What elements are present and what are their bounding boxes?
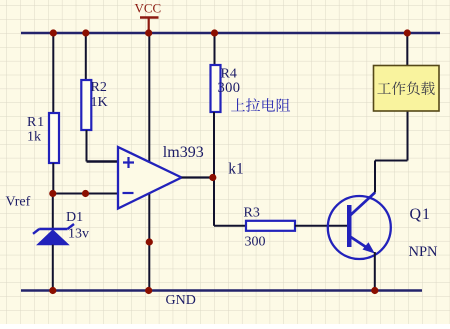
label 工作负载 (working load): [377, 81, 434, 95]
junction ground rail / supply: [145, 287, 152, 294]
junction VCC rail / R4: [211, 29, 218, 36]
wire ground bottom rail: [21, 289, 422, 292]
svg-text:NPN: NPN: [409, 244, 439, 260]
junction VCC rail / supply: [145, 29, 152, 36]
svg-text:1k: 1k: [27, 130, 41, 145]
svg-text:13v: 13v: [68, 227, 89, 242]
wire VCC rail to R4 top: [214, 33, 216, 65]
junction VCC rail / R1: [50, 29, 57, 36]
op-amp U1 lm393: [118, 147, 182, 209]
transistor Q1: [328, 193, 391, 260]
svg-text:Vref: Vref: [6, 195, 31, 210]
wire op-amp output to node k1: [182, 176, 214, 178]
wire VCC rail to load box top: [406, 33, 408, 66]
svg-text:1K: 1K: [91, 95, 108, 110]
wire collector jog right: [375, 160, 408, 162]
wire op-amp supply VCC to GND vertical: [148, 33, 150, 291]
svg-text:R1: R1: [27, 115, 45, 130]
svg-text:VCC: VCC: [135, 1, 162, 16]
junction minus wire node: [82, 190, 89, 197]
junction VCC rail / R2: [82, 29, 89, 36]
svg-text:D1: D1: [66, 210, 83, 225]
wire k1 branch to R3 left: [214, 225, 246, 227]
svg-text:300: 300: [218, 80, 241, 96]
junction VCC rail / load: [404, 29, 411, 36]
wire R4 bottom through k1 down: [213, 112, 215, 226]
wire Q1 collector up: [374, 161, 376, 193]
wire R1 bottom to Vref node: [52, 163, 54, 194]
junction supply wire node: [146, 238, 153, 245]
resistor R2: [81, 80, 91, 130]
wire Vref node to D1 cathode: [52, 194, 54, 230]
wire VCC rail to R2 top: [85, 33, 87, 80]
svg-text:Q1: Q1: [410, 206, 432, 223]
svg-text:k1: k1: [228, 161, 244, 178]
wire up to load box bottom: [407, 111, 409, 161]
svg-text:300: 300: [245, 235, 266, 250]
junction node k1: [209, 174, 216, 181]
wire D1 anode to ground rail: [52, 245, 54, 291]
wire Q1 emitter to ground rail: [374, 252, 376, 291]
resistor R3: [246, 221, 295, 231]
junction Vref node: [49, 190, 56, 197]
resistor R4: [211, 65, 221, 112]
wire VCC top rail: [21, 32, 440, 35]
wire R2 bottom down: [86, 130, 88, 162]
svg-text:GND: GND: [166, 293, 196, 308]
svg-text:R3: R3: [244, 206, 260, 221]
annotation 上拉电阻 (pull-up resistor): [231, 98, 290, 112]
load block 工作负载: [374, 66, 440, 112]
wire VCC rail to R1 top: [52, 33, 54, 113]
junction ground rail / D1: [49, 287, 56, 294]
svg-text:R2: R2: [91, 80, 107, 95]
wire Vref node to op-amp minus input: [52, 193, 118, 195]
zener diode D1: [33, 224, 74, 245]
svg-text:lm393: lm393: [163, 144, 204, 161]
wire R3 right to Q1 base: [295, 225, 347, 227]
power symbol VCC: [140, 18, 159, 34]
resistor R1: [49, 113, 59, 163]
junction ground rail / emitter: [371, 287, 378, 294]
wire to op-amp plus input: [87, 160, 119, 162]
